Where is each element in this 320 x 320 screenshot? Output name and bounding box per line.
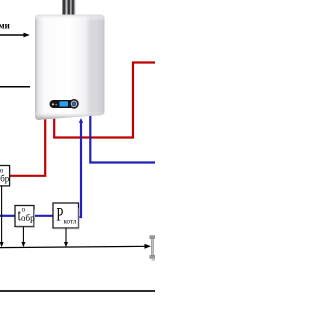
wire: red supply pipe R1 from boiler down-left to left sensor box	[10, 112, 45, 176]
wire: blue pipe between t box and P box	[34, 215, 53, 217]
wire: blue return pipe B1 from P box up into boiler	[79, 122, 82, 218]
svg-text:обр: обр	[21, 213, 35, 223]
sensor box T: t-обр on return line	[15, 205, 35, 227]
boiler body	[35, 15, 105, 120]
svg-text:котл: котл	[64, 217, 77, 225]
sensor box L (cut off at left edge)	[0, 166, 10, 187]
flue pipe (chimney) on top of boiler	[62, 0, 75, 16]
boiler control panel	[50, 99, 79, 109]
bus line with arrow to radiator	[0, 246, 147, 247]
svg-text:ми: ми	[0, 20, 10, 30]
signal arrow from box T down to bus	[22, 227, 24, 244]
svg-text:Р: Р	[56, 205, 63, 225]
wire: blue pipe B2 boiler -> down -> right edge	[90, 112, 155, 163]
radiator section at right edge	[150, 236, 155, 261]
signal arrow from box P down to bus	[65, 228, 67, 243]
svg-text:обр: обр	[0, 173, 10, 183]
floor line at bottom	[0, 290, 155, 292]
sensor box P: Ркотл boiler pressure	[53, 203, 79, 229]
wire: blue return pipe B3 left edge -> t box	[0, 215, 15, 217]
signal arrow from box L down to bus	[1, 186, 3, 244]
arrow into boiler	[0, 34, 26, 36]
wire: plain black line to boiler left	[0, 86, 30, 88]
arrowhead up into boiler on B1	[79, 118, 83, 123]
wire: red supply pipe R2 boiler -> right edge (down, right, up, right)	[54, 63, 155, 138]
